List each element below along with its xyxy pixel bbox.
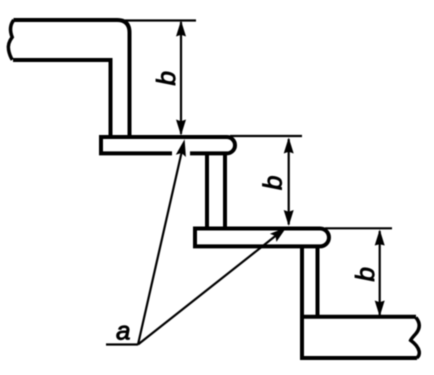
- leader arrowhead 1: [176, 139, 186, 157]
- leader shelf under label a: [106, 343, 138, 345]
- break line at left end of top slab: [8, 20, 13, 60]
- arrowhead b2 down: [284, 210, 294, 226]
- arrowhead b1 down: [176, 120, 186, 136]
- svg-text:b: b: [151, 71, 181, 85]
- svg-text:b: b: [258, 176, 288, 190]
- extension line 2: [230, 135, 302, 137]
- tread 2 plank with rounded nose, gap in bottom line for leader: [101, 137, 235, 153]
- top landing slab outline (tread 1) with nose corner and riser 1 right edge: [14, 20, 130, 137]
- break line at right end of bottom slab: [411, 318, 420, 358]
- dimension line b2: [288, 139, 290, 225]
- riser 2 right edge: [223, 153, 227, 229]
- arrowhead b3 down: [375, 301, 385, 317]
- extension line 1: [125, 19, 196, 21]
- arrowhead b3 up: [375, 230, 385, 246]
- riser 1 left edge: [109, 60, 113, 137]
- arrowhead b1 up: [176, 21, 186, 37]
- leader line 2 to tread 3 surface: [138, 231, 282, 345]
- extension line 3: [325, 227, 392, 229]
- tread 3 plank with rounded nose: [195, 229, 329, 247]
- arrowhead b2 up: [284, 138, 294, 154]
- dimension line b1: [180, 22, 182, 134]
- dimension line b3: [379, 231, 381, 315]
- top landing slab bottom line: [13, 58, 113, 62]
- riser 2 left edge: [205, 155, 209, 229]
- bottom landing slab top line: [300, 315, 416, 319]
- riser 3 left edge continuing as bottom slab left end: [300, 248, 304, 358]
- bottom landing slab bottom line: [300, 356, 417, 360]
- leader arrowhead 2: [270, 227, 287, 242]
- svg-text:b: b: [350, 267, 380, 281]
- svg-text:a: a: [116, 316, 130, 346]
- leader line 1 to tread 2 surface: [138, 144, 184, 345]
- riser 3 right edge: [316, 246, 320, 317]
